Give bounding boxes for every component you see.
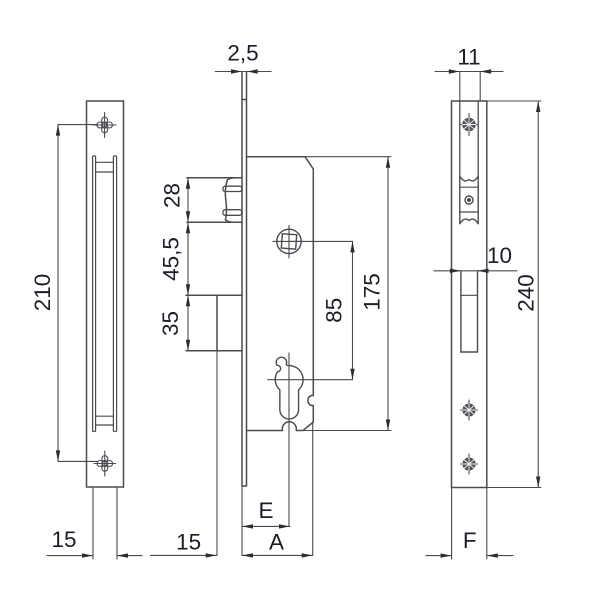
svg-text:15: 15 xyxy=(176,530,201,555)
middle view: dimension 15 xyxy=(151,554,217,556)
2,5 arrows xyxy=(231,69,242,73)
dimension texts xyxy=(30,41,539,555)
left view: dimension 210 xyxy=(58,125,98,462)
middle view: latch bolt (side) xyxy=(187,178,242,223)
left view: channel top crossbars xyxy=(96,162,114,172)
left view: channel left rail xyxy=(93,156,96,432)
10 arrows xyxy=(450,269,461,273)
45,5 arrows xyxy=(186,222,190,233)
middle view: deadbolt (side) xyxy=(186,295,242,350)
left view: strike/keeper plate outline xyxy=(87,101,124,487)
11 arrows xyxy=(449,69,460,73)
left view: channel bottom crossbars xyxy=(96,416,114,425)
right view: dimension 240 xyxy=(452,101,541,488)
svg-text:11: 11 xyxy=(457,45,480,70)
svg-text:E: E xyxy=(258,498,273,523)
svg-text:35: 35 xyxy=(158,311,183,336)
svg-text:15: 15 xyxy=(51,527,76,552)
middle view: dimension E xyxy=(242,525,290,527)
middle view: cylinder centerlines xyxy=(268,353,353,526)
right view: middle screw xyxy=(461,400,478,420)
right view: dimension 10 xyxy=(434,270,517,272)
svg-text:2,5: 2,5 xyxy=(227,41,258,66)
right view: bottom screw xyxy=(461,454,478,474)
85 arrows xyxy=(350,241,354,252)
right view: deadbolt slot (front) xyxy=(461,271,478,352)
left view: dimension 15 xyxy=(47,487,142,559)
svg-text:28: 28 xyxy=(160,183,185,208)
left view: top screw xyxy=(93,113,116,138)
middle view: case right-edge notch xyxy=(308,396,313,406)
right view: top screw xyxy=(460,114,478,136)
middle view: faceplate lower extension line xyxy=(241,486,243,555)
F arrows xyxy=(441,553,452,557)
middle view: dimension 175 xyxy=(289,157,391,431)
right view: latch bolt (front) xyxy=(460,176,478,223)
right view: inner case lines xyxy=(460,101,478,177)
middle view: deadbolt extension line xyxy=(216,351,218,556)
middle view: dimension column 28/45,5/35 xyxy=(187,178,189,351)
210 arrows xyxy=(56,125,60,136)
right view: dimension F xyxy=(426,488,513,560)
A arrows xyxy=(242,553,253,557)
svg-text:F: F xyxy=(463,528,477,553)
middle view: spindle hole xyxy=(273,226,306,259)
left view: channel right rail xyxy=(113,156,116,432)
E arrows xyxy=(242,524,253,528)
28 arrows xyxy=(186,178,190,189)
svg-text:45,5: 45,5 xyxy=(159,237,184,281)
arrowheads xyxy=(56,69,541,558)
middle view: dimension 85 xyxy=(352,241,354,379)
175 arrows xyxy=(386,157,390,168)
15 middle arrow xyxy=(206,553,217,557)
240 arrows xyxy=(536,101,540,112)
right view: faceplate outline xyxy=(452,101,487,488)
svg-text:A: A xyxy=(269,530,284,555)
right view: dimension 11 xyxy=(435,72,503,102)
middle view: case bottom notch xyxy=(282,422,296,431)
middle view: faceplate xyxy=(242,72,247,487)
35 arrows xyxy=(186,295,190,306)
svg-text:240: 240 xyxy=(514,274,539,312)
middle view: lock case outline xyxy=(247,157,314,431)
middle view: euro cylinder hole xyxy=(275,357,303,419)
svg-text:175: 175 xyxy=(360,273,385,311)
15 left-view arrows xyxy=(82,553,93,557)
svg-text:85: 85 xyxy=(322,298,347,323)
middle view: dimension A xyxy=(242,422,313,555)
svg-text:210: 210 xyxy=(30,274,55,312)
left view: bottom screw xyxy=(94,451,116,476)
svg-text:10: 10 xyxy=(487,243,512,268)
middle view: dimension 2,5 xyxy=(215,71,271,73)
